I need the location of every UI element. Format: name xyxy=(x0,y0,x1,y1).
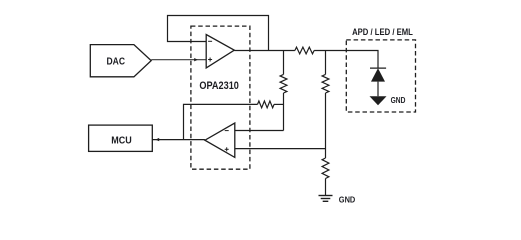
block MCU xyxy=(89,125,153,151)
arrowhead on MCU wire xyxy=(155,138,159,141)
wire U1A output xyxy=(234,50,295,52)
ground (earth) symbol xyxy=(319,196,333,202)
svg-text:OPA2310: OPA2310 xyxy=(199,80,239,92)
resistor R4 (vertical, x=325.7 upper) xyxy=(322,51,329,159)
dashed box U1 OPA2310 xyxy=(191,26,250,169)
wire DAC to U1A noninverting input xyxy=(151,59,206,61)
wire U1B output to MCU xyxy=(152,139,205,141)
resistor R3 (series, horizontal top) xyxy=(295,47,314,54)
photodiode D1 cathode bar xyxy=(370,67,386,69)
wire to U1B inverting input xyxy=(235,130,284,132)
wire R3 to APD box xyxy=(314,51,378,69)
op-amp U1A xyxy=(206,35,234,68)
arrowhead on DAC wire xyxy=(194,58,198,61)
ground arrow GND (inside APD box) xyxy=(370,96,387,105)
wire U1B noninverting input xyxy=(235,148,326,150)
wire feedback loop U1A output to inverting input xyxy=(168,16,269,51)
resistor R1 (vertical, U1B input) xyxy=(280,51,287,131)
svg-text:MCU: MCU xyxy=(111,134,132,146)
op-amp U1B xyxy=(205,123,235,157)
svg-text:GND: GND xyxy=(391,95,406,105)
svg-text:GND: GND xyxy=(339,195,356,205)
svg-text:DAC: DAC xyxy=(107,55,126,67)
svg-text:APD / LED / EML: APD / LED / EML xyxy=(352,27,413,38)
resistor R5 (vertical, to ground) xyxy=(322,158,329,196)
wire diode to ground arrow xyxy=(377,82,379,97)
photodiode D1 triangle xyxy=(371,68,385,81)
resistor R2 (U1B feedback, horizontal) xyxy=(184,101,284,140)
block DAC xyxy=(90,45,151,77)
dashed box APD / LED / EML xyxy=(346,40,415,112)
